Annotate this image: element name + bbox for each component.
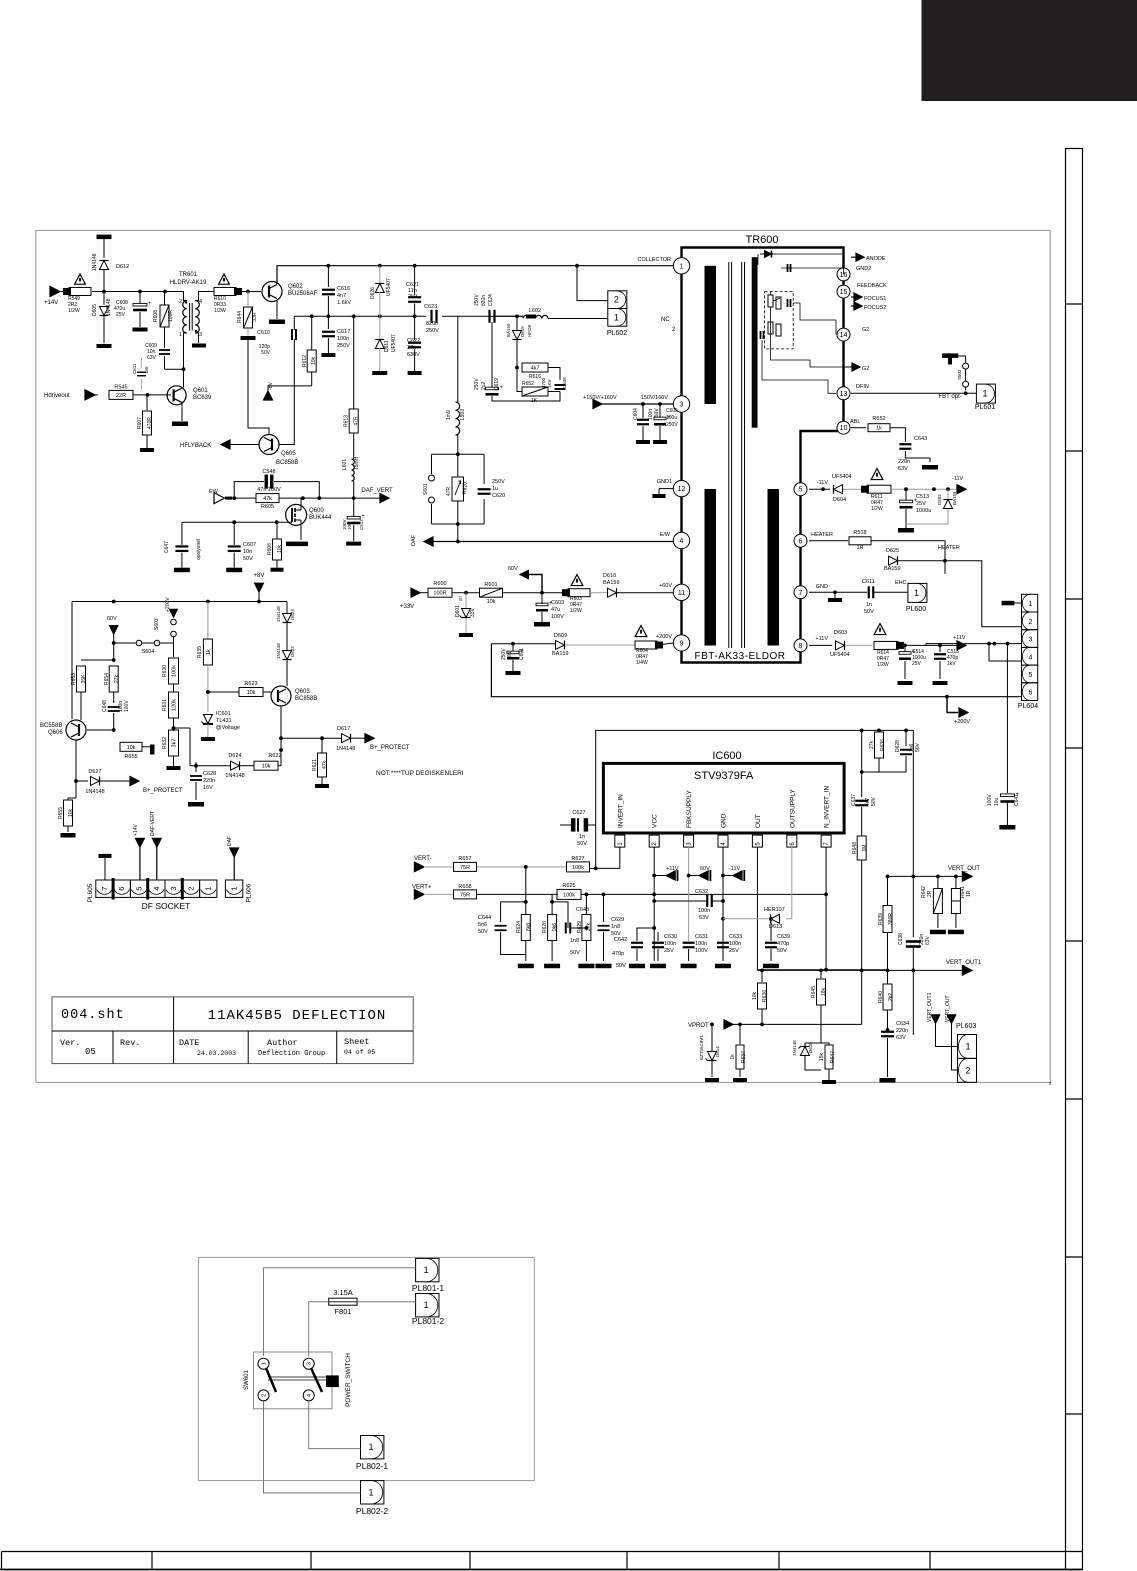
svg-text:1: 1: [369, 1442, 374, 1452]
svg-text:ANODE: ANODE: [866, 256, 886, 262]
svg-text:3: 3: [169, 887, 178, 891]
connector PL602 cell 1: [608, 309, 627, 327]
svg-text:1/2W: 1/2W: [68, 308, 80, 314]
svg-text:GND2: GND2: [856, 266, 871, 272]
resistor R621 47k: [321, 738, 323, 753]
svg-text:1: 1: [614, 312, 619, 322]
svg-text:C604: C604: [633, 408, 639, 420]
svg-text:HLDRV-AK19: HLDRV-AK19: [170, 280, 207, 286]
svg-text:GND1: GND1: [657, 479, 672, 485]
svg-text:Deflection Group: Deflection Group: [258, 1050, 325, 1058]
svg-text:FOCUS2: FOCUS2: [864, 305, 886, 311]
main +14V bus wire: [60, 291, 68, 293]
resistor R601 10k slash: [480, 588, 503, 597]
svg-text:10k: 10k: [127, 745, 136, 751]
svg-text:63V: 63V: [699, 915, 709, 921]
jumper S601: [429, 475, 435, 481]
svg-text:3: 3: [687, 842, 693, 846]
SW601 actuator lines: [266, 1368, 276, 1392]
svg-text:BUK444: BUK444: [309, 515, 332, 521]
svg-text:+200V: +200V: [954, 719, 970, 725]
svg-text:10k: 10k: [262, 764, 271, 770]
svg-text:220n: 220n: [896, 1028, 908, 1034]
svg-text:R654: R654: [104, 673, 110, 685]
svg-text:FEEDBACK: FEEDBACK: [857, 283, 887, 289]
svg-text:Q602: Q602: [288, 284, 303, 290]
svg-text:PL802-1: PL802-1: [356, 1461, 388, 1471]
svg-text:L601: L601: [342, 459, 348, 470]
Q600 gate wire lower row: [182, 521, 292, 523]
capacitor C514 1000u 25V: [904, 645, 906, 652]
inductor L903 1m9: [457, 316, 459, 402]
ground big bottom: [828, 1077, 830, 1080]
capacitor C611? snubber vertical: [137, 371, 146, 373]
wire pin5 OUT down: [757, 847, 887, 970]
flyback transformer TR600 outline: [682, 248, 844, 663]
svg-text:VERT_OUT1: VERT_OUT1: [946, 960, 982, 966]
connector PL605 DF socket: [96, 880, 113, 897]
svg-text:R608: R608: [153, 310, 159, 322]
resistor R518 1R: [849, 537, 871, 545]
svg-text:C601: C601: [519, 648, 525, 660]
capacitor C621 11n 2kV: [414, 266, 416, 295]
svg-text:2: 2: [614, 295, 619, 305]
svg-text:25V: 25V: [916, 501, 926, 507]
resistor R625 100k: [557, 889, 581, 899]
+11V output arrow: [957, 641, 966, 650]
svg-text:R652: R652: [872, 416, 885, 422]
svg-text:S601: S601: [423, 483, 429, 495]
svg-text:L602: L602: [529, 308, 541, 314]
power switch sheet border: [198, 1257, 534, 1480]
svg-text:6: 6: [117, 887, 126, 891]
svg-text:D609: D609: [554, 633, 567, 639]
connector PL801-2: [416, 1294, 439, 1317]
svg-text:3: 3: [199, 332, 202, 338]
svg-text:25V: 25V: [912, 661, 922, 667]
fuse F801: [329, 1298, 357, 1305]
svg-text:4: 4: [307, 1394, 313, 1397]
diode D609 BA159: [491, 643, 555, 645]
svg-text:EHC: EHC: [895, 580, 907, 586]
svg-text:R639: R639: [878, 913, 884, 925]
svg-text:BU2508AF: BU2508AF: [288, 291, 318, 297]
svg-text:UF5407: UF5407: [391, 334, 397, 352]
svg-text:1/2W: 1/2W: [570, 608, 582, 614]
capacitor C601 10u 250V: [512, 644, 514, 652]
svg-text:R630: R630: [162, 665, 168, 677]
resistor R610 0R33 fusible: [219, 274, 230, 284]
TR600 inner right pins: [794, 483, 807, 496]
svg-text:BA159: BA159: [506, 323, 511, 337]
ANODE arrow and label: [851, 256, 860, 258]
svg-text:FBT-AK33-ELDOR: FBT-AK33-ELDOR: [695, 651, 786, 662]
svg-text:R636: R636: [880, 739, 886, 751]
svg-text:PL605: PL605: [87, 883, 94, 902]
svg-text:05: 05: [85, 1047, 96, 1057]
capacitor C605 100u 250V: [659, 404, 661, 418]
svg-text:10u: 10u: [347, 522, 352, 530]
svg-text:D610: D610: [603, 573, 616, 579]
svg-text:13: 13: [840, 391, 848, 398]
wire PL801-1 to switch pin1: [264, 1268, 416, 1356]
svg-text:C648: C648: [102, 700, 108, 712]
thick ABL drop wire: [820, 435, 844, 439]
svg-text:10k: 10k: [487, 599, 496, 605]
60V supply flag: [689, 875, 700, 877]
svg-text:Q601: Q601: [193, 388, 208, 394]
svg-text:50V: 50V: [864, 609, 874, 615]
svg-text:GND: GND: [816, 584, 828, 590]
svg-text:004.sht: 004.sht: [61, 1008, 125, 1023]
B+_PROTECT arrow 2: [130, 777, 139, 786]
svg-text:6: 6: [790, 842, 796, 846]
svg-text:47R: 47R: [446, 486, 452, 496]
transistor Q602 BU2508AF: [262, 282, 282, 302]
DAF_VERT wire and arrow: [354, 497, 382, 499]
svg-text:100V: 100V: [695, 948, 708, 954]
svg-text:+8V: +8V: [254, 573, 265, 579]
TR600 primary winding bar upper: [705, 266, 717, 404]
svg-text:1n8: 1n8: [570, 938, 579, 944]
wire R635 to Q603 base node: [208, 675, 239, 677]
svg-text:R601: R601: [484, 582, 497, 588]
VERT_OUT wire: [888, 875, 965, 877]
svg-text:C623: C623: [424, 304, 437, 310]
focus diode: [760, 253, 775, 255]
svg-text:C620: C620: [492, 493, 505, 499]
wire VERT- divider: [525, 867, 527, 914]
svg-text:380R: 380R: [888, 913, 894, 925]
capacitor C644 5n6 50V: [501, 902, 526, 922]
svg-text:C619: C619: [494, 378, 500, 390]
svg-text:R625: R625: [562, 883, 575, 889]
svg-text:04 of 05: 04 of 05: [344, 1049, 375, 1056]
svg-text:SW601: SW601: [244, 1370, 250, 1390]
wire PL602-2 to collector bus: [577, 266, 608, 301]
svg-text:25V: 25V: [729, 948, 739, 954]
svg-text:4700: 4700: [541, 377, 546, 388]
resistor R652 1K slash: [522, 387, 548, 396]
svg-text:DFIN: DFIN: [856, 384, 869, 390]
capacitor C610 120p 50V: [291, 329, 293, 340]
ground below D605: [97, 344, 112, 348]
svg-text:10u: 10u: [994, 797, 1000, 806]
svg-text:820n: 820n: [426, 321, 438, 327]
resistor R654 27k: [109, 666, 118, 692]
svg-text:250V: 250V: [426, 328, 439, 334]
svg-text:22R: 22R: [116, 393, 126, 399]
SW601 pin 1: [258, 1358, 269, 1369]
capacitor C620 1u 250V: [478, 488, 491, 490]
TR600 primary winding bar lower: [705, 489, 717, 646]
IC601 ref wire: [174, 714, 208, 728]
svg-text:250V: 250V: [337, 343, 350, 349]
TR600 LV secondary winding bar: [768, 489, 780, 646]
svg-text:C628: C628: [203, 771, 216, 777]
svg-text:D624: D624: [228, 753, 241, 759]
ground at PL605 pin7: [99, 854, 112, 858]
+11V net wire to PL604: [925, 644, 927, 646]
svg-text:10k: 10k: [311, 356, 317, 365]
svg-text:opsiyonel: opsiyonel: [196, 539, 202, 560]
svg-text:C627: C627: [572, 810, 585, 816]
transistor Q606 BC558B: [66, 720, 86, 740]
svg-text:47k: 47k: [322, 760, 328, 769]
svg-text:DAF: DAF: [411, 534, 417, 546]
svg-text:D502: D502: [937, 494, 942, 505]
svg-text:25V: 25V: [664, 948, 674, 954]
connector PL602 cell 2: [608, 291, 627, 309]
svg-text:35K: 35K: [81, 674, 87, 684]
capacitor C631 100n 100V: [683, 942, 695, 944]
capacitor C634 220n 63V: [881, 1031, 894, 1033]
svg-text:GND: GND: [721, 813, 728, 828]
svg-text:470R: 470R: [147, 417, 153, 429]
svg-text:C611: C611: [132, 363, 137, 374]
svg-text:HEATER: HEATER: [938, 545, 960, 551]
svg-text:50V: 50V: [478, 929, 488, 935]
+8V arrow top: [255, 583, 264, 592]
svg-text:C616: C616: [337, 286, 350, 292]
IC600 pin boxes 1-7: [615, 835, 625, 847]
svg-text:FBKSUPPLY: FBKSUPPLY: [686, 790, 693, 828]
wire to PL604 pin4: [989, 644, 1022, 661]
svg-text:1N4148: 1N4148: [276, 643, 281, 659]
svg-text:N_INVERT_IN: N_INVERT_IN: [824, 786, 831, 828]
-8V arrow: [264, 391, 273, 400]
svg-text:D626: D626: [370, 287, 376, 299]
svg-text:4: 4: [199, 299, 202, 305]
capacitor C607 10n 50V: [233, 522, 235, 545]
svg-text:2: 2: [652, 842, 658, 846]
wire switch pin4 to PL802-1: [309, 1401, 361, 1449]
svg-text:D604: D604: [833, 497, 846, 503]
svg-text:DAF-VERT: DAF-VERT: [150, 811, 156, 836]
transistor Q600 BUK444 mosfet: [286, 504, 307, 525]
svg-text:4k7: 4k7: [531, 366, 540, 372]
svg-text:1: 1: [230, 887, 239, 891]
vertical feedback wire: [596, 730, 914, 868]
resistor R658 75R: [454, 890, 477, 899]
wire pin4 GND down: [722, 847, 724, 961]
svg-text:6: 6: [799, 538, 803, 545]
diode D622 1N4148: [283, 651, 292, 660]
svg-text:1: 1: [179, 332, 182, 338]
svg-text:R626: R626: [542, 921, 548, 933]
zener D614 BZT55C8V1: [711, 1024, 713, 1042]
B+_PROTECT arrow right: [365, 734, 374, 743]
wire switch pin2 to PL802-2: [264, 1401, 361, 1493]
diode D610 BA159: [590, 592, 607, 594]
svg-text:47R: 47R: [354, 416, 360, 426]
resistor R655 10k vertical: [75, 781, 77, 798]
+11V supply flag: [654, 875, 666, 877]
svg-text:1: 1: [369, 1487, 374, 1497]
svg-text:TL431: TL431: [216, 718, 232, 724]
svg-text:C629: C629: [611, 917, 624, 923]
-11V output arrow: [957, 485, 966, 494]
svg-text:11: 11: [678, 590, 685, 597]
resistor R545 22R: [95, 394, 98, 396]
TR601 pin1 wire to Q601 collector: [184, 333, 187, 388]
resistor R608 100R: [164, 292, 166, 306]
svg-text:1: 1: [262, 1362, 268, 1365]
svg-text:C647: C647: [164, 541, 170, 553]
svg-text:C631: C631: [695, 934, 708, 940]
capacitor C643 220n 63V: [899, 443, 911, 445]
connector PL802-2: [361, 1481, 384, 1504]
svg-text:-11V: -11V: [729, 866, 741, 872]
wire pin2 VCC down: [653, 847, 655, 961]
svg-text:S502: S502: [957, 369, 962, 380]
capacitor C641 10u 100V: [1000, 794, 1014, 797]
svg-text:PL606: PL606: [246, 883, 253, 902]
svg-text:G2: G2: [862, 327, 869, 333]
svg-text:50V: 50V: [570, 950, 580, 956]
svg-text:27n: 27n: [407, 345, 416, 351]
resistor R627 100k: [567, 862, 590, 872]
svg-text:470p: 470p: [612, 951, 624, 957]
svg-text:R644: R644: [237, 311, 243, 323]
svg-text:1: 1: [1028, 601, 1032, 608]
svg-text:50V: 50V: [915, 742, 921, 752]
diode D623 1N4148: [286, 602, 288, 614]
PL605 thick separators: [112, 878, 115, 900]
svg-text:7: 7: [824, 842, 830, 846]
svg-text:1N4148: 1N4148: [106, 298, 112, 316]
svg-text:10: 10: [840, 425, 848, 432]
svg-text:BA159: BA159: [603, 580, 620, 586]
ground bar above S502: [950, 356, 966, 363]
diode D603 UF5404: [836, 641, 845, 650]
capacitor C608 470u 25V: [139, 292, 141, 305]
svg-text:75R: 75R: [460, 865, 470, 871]
svg-text:100u: 100u: [666, 415, 677, 421]
svg-text:12: 12: [678, 486, 686, 493]
capacitor C616 4n7 1.6kV: [327, 266, 329, 287]
svg-text:BA159: BA159: [952, 491, 957, 505]
connector PL603: [958, 1035, 977, 1059]
Q601 emitter ground: [181, 402, 183, 421]
svg-text:100n: 100n: [729, 941, 741, 947]
svg-text:27k: 27k: [114, 674, 120, 683]
svg-text:C624: C624: [488, 294, 494, 306]
svg-text:63V: 63V: [925, 935, 931, 945]
svg-text:2: 2: [179, 299, 182, 305]
capacitor C604 100n 250V: [642, 404, 644, 418]
svg-text:1n: 1n: [579, 834, 585, 840]
svg-text:HEATER: HEATER: [811, 532, 833, 538]
zener D601 33V: [465, 593, 467, 608]
resistor R645 18k: [820, 970, 822, 978]
svg-text:3k7: 3k7: [172, 739, 178, 748]
svg-text:R613: R613: [344, 415, 350, 427]
svg-text:16V: 16V: [203, 785, 213, 791]
capacitor C637 4n7 50V: [855, 800, 868, 802]
resistor R631 120k: [169, 692, 179, 718]
revision zone column right edge: [1066, 149, 1083, 1570]
op-amp IC600 STV9379FA box: [603, 763, 844, 833]
svg-text:1: 1: [680, 263, 684, 270]
svg-text:C638: C638: [898, 933, 904, 945]
svg-text:11AK45B5 DEFLECTION: 11AK45B5 DEFLECTION: [208, 1008, 387, 1024]
wire pin3 down: [688, 847, 690, 936]
resistor R606 10k: [273, 539, 282, 560]
focus pot 4: [776, 324, 781, 336]
resistor R603 0R47 fusible: [571, 575, 583, 586]
svg-text:R627: R627: [571, 856, 584, 862]
capacitor C648 100n 100V: [108, 706, 120, 708]
svg-text:BC558B: BC558B: [40, 723, 62, 729]
capacitor C642 470p 50V: [636, 936, 638, 940]
svg-text:100V: 100V: [124, 700, 130, 712]
svg-text:630V: 630V: [407, 352, 420, 358]
zener D614: [711, 1043, 713, 1048]
svg-text:Q605: Q605: [281, 451, 296, 457]
svg-text:5: 5: [799, 487, 803, 494]
svg-text:NOT:****TUP DEGISKENLERI: NOT:****TUP DEGISKENLERI: [376, 770, 464, 777]
svg-text:5: 5: [755, 842, 761, 846]
svg-text:24.03.2003: 24.03.2003: [197, 1050, 236, 1057]
capacitor C630 100n 25V: [652, 942, 664, 944]
svg-text:3: 3: [680, 402, 684, 409]
wire Q603 collector down: [280, 706, 282, 766]
control bus wire: [72, 601, 287, 603]
svg-text:R606: R606: [267, 543, 273, 555]
resistor R611 0R47 fusible: [871, 469, 883, 480]
svg-text:D628: D628: [895, 740, 901, 752]
svg-text:1: 1: [424, 1300, 429, 1310]
svg-text:B+_PROTECT: B+_PROTECT: [370, 745, 410, 751]
svg-text:DAF: DAF: [227, 836, 233, 846]
svg-text:100k: 100k: [563, 892, 575, 898]
svg-text:1/4W: 1/4W: [636, 660, 648, 666]
svg-text:Sheet: Sheet: [344, 1037, 370, 1047]
gnd wire pin7: [809, 591, 867, 593]
SW601 pin 3: [303, 1358, 314, 1369]
svg-text:R652: R652: [522, 381, 534, 387]
svg-text:7: 7: [799, 590, 803, 597]
svg-text:250V: 250V: [666, 422, 678, 428]
svg-text:VERT-: VERT-: [414, 856, 432, 862]
svg-text:9: 9: [680, 640, 684, 647]
svg-text:4: 4: [721, 842, 727, 846]
svg-text:100n: 100n: [337, 336, 349, 342]
E/W wire to pin4: [458, 541, 674, 542]
Q602 emitter to ground: [276, 301, 278, 319]
svg-text:1u: 1u: [492, 486, 498, 492]
transistor Q603 BC858B: [271, 686, 291, 706]
svg-text:18k: 18k: [821, 987, 827, 996]
svg-text:C633: C633: [729, 934, 742, 940]
svg-text:PL801-2: PL801-2: [412, 1316, 444, 1326]
svg-text:14: 14: [840, 332, 848, 339]
svg-text:TR600: TR600: [745, 234, 778, 246]
svg-text:2: 2: [672, 327, 676, 333]
resistor R658 10k at Q606: [120, 742, 142, 751]
VERT_OUT1 arrow: [962, 966, 972, 976]
svg-text:8: 8: [799, 643, 803, 650]
capacitor C617 100n 250V: [327, 316, 329, 329]
svg-text:INVERT_IN: INVERT_IN: [617, 794, 624, 828]
diode D627 1N4148: [91, 777, 100, 786]
capacitor C623 820n 250V series: [430, 310, 432, 323]
TR601 pin3 ground: [195, 333, 198, 343]
Q606 emitter wire down: [76, 740, 88, 781]
svg-text:100n: 100n: [664, 941, 676, 947]
svg-text:1: 1: [982, 389, 987, 399]
